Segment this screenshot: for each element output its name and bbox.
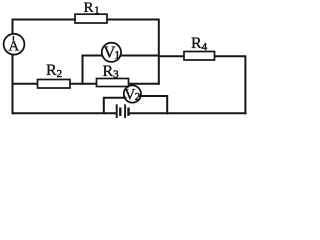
ammeter arrow stem bbox=[12, 36, 14, 41]
wire bottom right segment bbox=[130, 112, 246, 114]
resistor R3 box bbox=[97, 79, 129, 87]
resistor R4 box bbox=[184, 52, 215, 61]
wire V2 right tap bbox=[140, 96, 167, 113]
svg-text:A: A bbox=[8, 39, 19, 55]
voltmeter V2 bbox=[124, 85, 141, 102]
battery cell bar short 2 bbox=[127, 109, 129, 115]
voltmeter V1 circle bbox=[102, 43, 121, 62]
wire R2-R3 row bbox=[13, 83, 159, 85]
wire bottom left segment bbox=[13, 112, 116, 114]
wire outer loop: left vertical + top wire + right vertical B bbox=[13, 20, 159, 114]
resistor R2 box bbox=[38, 80, 71, 89]
wire V1 row with junction vertical bbox=[83, 56, 159, 84]
battery cell bar long 1 bbox=[116, 105, 118, 117]
ammeter A circle bbox=[4, 34, 25, 55]
battery cell bar short 1 bbox=[119, 109, 121, 115]
wire V2 left tap bbox=[104, 98, 126, 113]
resistor R1 box bbox=[75, 14, 107, 23]
battery cell bar long 2 bbox=[124, 105, 126, 117]
wire R4 row to right vertical bbox=[159, 56, 246, 113]
